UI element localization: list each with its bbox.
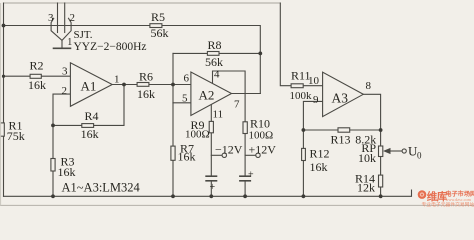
resistor R1 <box>0 119 25 144</box>
capacitor C1 (on -12V rail) <box>205 176 217 181</box>
wire R11 to A3 pin10 <box>303 85 322 87</box>
ground rail nodes <box>51 194 55 198</box>
wire A1 pin2 loop <box>53 94 70 125</box>
wire top rail drop to R11 <box>280 3 291 86</box>
svg-text:16k: 16k <box>178 150 196 164</box>
wire R6 to A2 pin6 <box>149 84 191 86</box>
svg-text:A1: A1 <box>81 79 97 94</box>
wire R8 left vertical down through pin6 to pin5 corner <box>172 53 174 102</box>
bottom scan border <box>0 204 474 206</box>
svg-text:+: + <box>210 182 216 193</box>
svg-text:+: + <box>248 170 254 181</box>
wire A2 pin11 to R9 <box>210 105 212 122</box>
svg-text:3: 3 <box>62 66 68 78</box>
svg-text:75k: 75k <box>7 129 25 143</box>
svg-text:16k: 16k <box>310 160 328 174</box>
wire A2 output <box>232 93 261 95</box>
resistor R5 <box>150 10 169 40</box>
svg-text:A2: A2 <box>199 88 215 103</box>
svg-text:1: 1 <box>114 74 120 86</box>
resistor R6 <box>137 70 155 102</box>
node R8 / pin6 <box>171 83 175 87</box>
svg-text:R6: R6 <box>139 70 153 84</box>
svg-text:12k: 12k <box>357 181 375 195</box>
resistor R11 <box>290 69 313 103</box>
wire A1 output to R6 <box>112 84 137 86</box>
svg-text:3: 3 <box>48 12 54 24</box>
resistor R13 <box>331 128 377 147</box>
wire R10 to +12V node and cap <box>244 134 246 177</box>
op-amp A1 <box>62 63 120 107</box>
svg-text:10: 10 <box>308 75 320 87</box>
terminal -12V <box>222 153 226 157</box>
node input left <box>2 24 6 28</box>
wire +12V tap <box>245 154 256 156</box>
wire top rail <box>4 2 281 4</box>
svg-text:2: 2 <box>62 85 68 97</box>
terminal +12V <box>256 153 260 157</box>
svg-text:www.dzsc.com: www.dzsc.com <box>445 197 471 202</box>
svg-text:A1~A3:LM324: A1~A3:LM324 <box>62 181 141 195</box>
svg-text:10k: 10k <box>358 151 376 165</box>
wire A3 output pin8 <box>363 94 380 146</box>
wire R13 feedback line <box>303 129 380 131</box>
svg-text:R12: R12 <box>310 147 330 161</box>
node A1 out / R4 <box>122 83 126 87</box>
svg-text:5: 5 <box>182 93 188 105</box>
wire RP wiper to U0 terminal <box>390 150 403 152</box>
resistor R4 <box>81 109 99 141</box>
node R4/R3/pin2 <box>51 124 55 128</box>
potentiometer RP <box>358 141 391 165</box>
transducer electrode pins <box>57 3 59 33</box>
svg-text:56k: 56k <box>205 55 223 69</box>
ground bar <box>54 47 71 49</box>
svg-text:16k: 16k <box>28 78 46 92</box>
resistor R12 <box>302 147 330 175</box>
wire R9 to -12V node and cap <box>210 133 212 176</box>
svg-text:2: 2 <box>70 12 76 24</box>
wire A1 pin3 input <box>4 75 31 77</box>
svg-text:100k: 100k <box>290 90 313 102</box>
svg-text:1: 1 <box>67 37 72 48</box>
op-amp A3 <box>308 72 372 116</box>
wire bottom ground rail <box>4 190 412 196</box>
wire R5 right to A2 output corner <box>162 26 260 94</box>
wire A2 pin5 horizontal <box>173 102 191 104</box>
capacitor C2 (on +12V rail) <box>239 176 251 181</box>
svg-text:7: 7 <box>234 99 240 111</box>
resistor R14 <box>355 172 383 195</box>
svg-text:+12V: +12V <box>249 143 277 157</box>
svg-text:0: 0 <box>417 151 422 161</box>
svg-text:100Ω: 100Ω <box>185 129 210 141</box>
wire A3 pin9 loop <box>303 101 322 130</box>
node R13 / pin9 <box>302 128 306 132</box>
wire R8 feedback line <box>173 52 260 54</box>
svg-text:16k: 16k <box>58 165 76 179</box>
transducer SJT body <box>51 3 71 48</box>
svg-text:4: 4 <box>214 69 220 81</box>
svg-text:56k: 56k <box>151 26 169 40</box>
svg-text:16k: 16k <box>81 127 99 141</box>
terminal U0 <box>402 149 406 153</box>
wire R12 down to ground <box>302 130 304 196</box>
left scan border <box>0 3 2 205</box>
wire R4 feedback line <box>53 85 124 126</box>
node R5 / R8 <box>258 52 262 56</box>
svg-text:6: 6 <box>184 73 190 85</box>
wire RP to R14 to ground <box>380 157 382 176</box>
node A3 out / R13 <box>379 128 383 132</box>
svg-text:R2: R2 <box>30 59 44 73</box>
op-amp A2 <box>182 69 240 121</box>
resistor R3 <box>51 155 76 180</box>
wire -12V tap <box>211 154 222 156</box>
resistor R8 <box>205 38 223 69</box>
wire A2 pin4 to +12V branch <box>213 71 246 122</box>
svg-text:−12V: −12V <box>215 143 243 157</box>
wire R3 down to ground <box>52 125 54 196</box>
svg-text:11: 11 <box>213 109 224 121</box>
resistor R9 <box>185 118 213 141</box>
svg-text:R5: R5 <box>151 10 165 24</box>
wire R7 branch down to ground <box>172 103 174 197</box>
wire input node at y=25.5 <box>4 25 150 27</box>
svg-text:YYZ−2−800Hz: YYZ−2−800Hz <box>74 41 147 53</box>
svg-text:R10: R10 <box>250 117 270 131</box>
svg-text:100Ω: 100Ω <box>249 130 274 142</box>
svg-text:9: 9 <box>313 94 319 106</box>
svg-text:16k: 16k <box>137 87 155 101</box>
svg-text:A3: A3 <box>332 91 349 106</box>
watermark logo <box>418 190 474 208</box>
node R2 tap <box>2 75 5 78</box>
resistor R7 <box>171 142 196 164</box>
resistor R2 <box>28 59 46 93</box>
svg-text:SJT.: SJT. <box>74 29 93 41</box>
svg-text:R8: R8 <box>208 38 222 52</box>
resistor R10 <box>243 117 273 142</box>
wire left vertical bus <box>3 3 5 196</box>
svg-text:R4: R4 <box>85 109 99 123</box>
svg-text:8: 8 <box>366 80 372 92</box>
